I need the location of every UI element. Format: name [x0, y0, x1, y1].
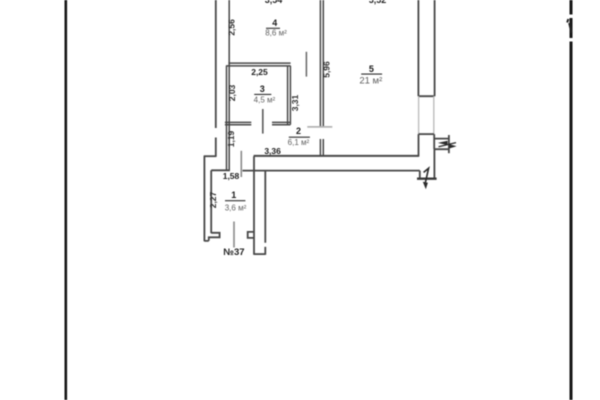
lintel gray line over door 2/5 — [307, 126, 332, 128]
wall: room 3 top — [226, 65, 291, 67]
svg-text:3,31: 3,31 — [290, 94, 300, 111]
room 1 bottom-left pier foot — [204, 233, 219, 241]
door leaf room 3 — [262, 109, 264, 134]
svg-text:21 м²: 21 м² — [359, 75, 382, 86]
svg-text:3,54: 3,54 — [265, 0, 283, 5]
svg-text:2,56: 2,56 — [226, 19, 236, 36]
svg-text:8,6 м²: 8,6 м² — [265, 28, 287, 37]
bottom cap of right assembly — [254, 253, 265, 255]
svg-text:2,27: 2,27 — [208, 191, 218, 208]
balcony door jamb — [448, 135, 450, 153]
svg-text:4: 4 — [272, 18, 277, 28]
svg-text:2,03: 2,03 — [227, 84, 237, 101]
window sill line — [419, 133, 434, 135]
svg-text:5,96: 5,96 — [321, 61, 331, 78]
svg-text:5: 5 — [369, 64, 374, 74]
wall: divider rooms 2/5 lower — [319, 139, 321, 156]
wall: room 3 bottom left segment — [225, 121, 251, 123]
door leaf room 1 bottom door — [233, 222, 235, 248]
lower zone left wall lower part — [264, 247, 266, 255]
balcony door arrows — [439, 143, 457, 147]
wall: room 3 bottom right segment — [272, 121, 290, 123]
room 1 right notch bump — [248, 232, 254, 238]
wall: left jog at corridor — [204, 155, 217, 157]
svg-text:3,6 м²: 3,6 м² — [225, 203, 247, 212]
gray door leaf room 1 top door — [240, 151, 242, 177]
entrance arrow — [424, 168, 429, 182]
frame left border line — [65, 0, 68, 400]
svg-text:3,36: 3,36 — [264, 146, 281, 156]
entrance step wall — [419, 171, 421, 179]
wall: room 3 right pair — [287, 66, 289, 125]
wall: room 4 exterior left, upper segment — [215, 0, 217, 128]
svg-text:1,19: 1,19 — [226, 130, 236, 147]
wall: exterior left, lower segment above jog — [215, 138, 217, 157]
room 5 right thick wall — [418, 0, 434, 96]
window faint lines — [418, 96, 420, 134]
svg-text:4,5 м²: 4,5 м² — [254, 95, 276, 104]
wall: right side down from bump — [433, 149, 435, 179]
room 1 top wall left segment — [211, 169, 230, 171]
svg-text:2: 2 — [296, 126, 301, 136]
room 1 inner left wall — [210, 170, 212, 233]
wall: divider rooms 4/5 upper — [319, 0, 321, 127]
svg-text:3: 3 — [260, 84, 265, 94]
wall: inner left line rooms 4-3-2 — [228, 0, 230, 171]
dimension line segment near 5,96 — [305, 52, 307, 77]
room 1 outer left wall — [203, 156, 205, 241]
svg-text:№37: №37 — [223, 247, 244, 258]
svg-text:2,25: 2,25 — [251, 67, 268, 77]
wall below window left line — [418, 134, 420, 157]
entrance threshold bar — [417, 177, 437, 179]
svg-text:6,1 м²: 6,1 м² — [288, 138, 310, 147]
wall: bottom of rooms 2 and 5 — [254, 155, 419, 157]
wall: room 3 outer-left line — [226, 66, 228, 171]
wall: room 4 bottom — [228, 62, 290, 64]
room 1 right outer wall — [253, 156, 255, 255]
room 1 top wall right segment + lower zone top — [243, 170, 420, 172]
lower zone left wall upper part — [264, 171, 266, 243]
svg-text:5,52: 5,52 — [369, 0, 387, 5]
svg-text:1,58: 1,58 — [223, 171, 240, 181]
balcony door bump — [434, 134, 449, 149]
frame right border line — [567, 0, 574, 400]
svg-text:1: 1 — [231, 190, 236, 200]
